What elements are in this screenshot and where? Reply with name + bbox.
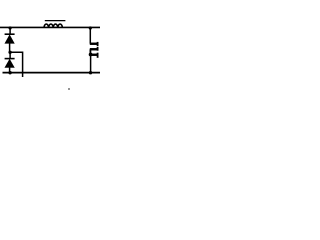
- speck artifact: [68, 88, 70, 90]
- node E (mid-right junction dot): [89, 53, 93, 57]
- wire D1 top lead: [9, 27, 11, 34]
- node A (top-left junction dot): [9, 26, 12, 29]
- wire right column upper: [89, 27, 91, 43]
- stub element lead bar: [91, 54, 98, 56]
- capacitor C1 bottom plate tick: [97, 47, 99, 51]
- capacitor C1 bottom plate bar: [90, 48, 98, 50]
- node C (bottom-left junction dot): [8, 71, 11, 74]
- wire top rail: [0, 26, 100, 28]
- capacitor C1 top plate bar: [90, 43, 98, 45]
- wire branch to center tap: [10, 52, 23, 77]
- capacitor C1 top plate tick: [97, 42, 99, 46]
- wire right column lower: [90, 55, 92, 73]
- stub plate tick: [97, 53, 99, 58]
- inductor L1 winding: [44, 24, 62, 28]
- node F (bottom-right junction dot): [89, 71, 92, 74]
- diode D1: [5, 34, 15, 51]
- node B (mid-left junction dot): [8, 51, 11, 54]
- wire bottom rail: [3, 72, 101, 74]
- diode D2: [5, 59, 15, 73]
- wire D2 top lead: [9, 52, 11, 58]
- inductor L1 core bar: [45, 20, 66, 22]
- wire C1 bottom lead down: [89, 49, 91, 53]
- node D (top-right junction dot): [89, 26, 92, 29]
